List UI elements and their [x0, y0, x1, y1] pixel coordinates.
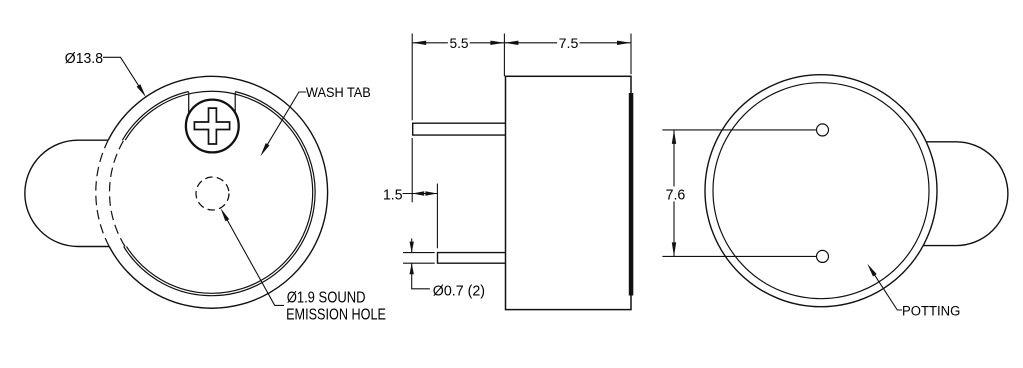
- svg-text:1.5: 1.5: [383, 187, 403, 203]
- svg-text:Ø13.8: Ø13.8: [65, 50, 103, 67]
- svg-text:WASH TAB: WASH TAB: [306, 85, 371, 100]
- svg-text:Ø1.9 SOUND: Ø1.9 SOUND: [287, 290, 366, 307]
- svg-text:POTTING: POTTING: [902, 304, 960, 320]
- svg-text:5.5: 5.5: [449, 36, 468, 52]
- svg-text:Ø0.7 (2): Ø0.7 (2): [433, 282, 485, 299]
- svg-text:EMISSION HOLE: EMISSION HOLE: [286, 306, 386, 323]
- svg-text:7.6: 7.6: [666, 187, 686, 204]
- svg-text:7.5: 7.5: [559, 36, 579, 52]
